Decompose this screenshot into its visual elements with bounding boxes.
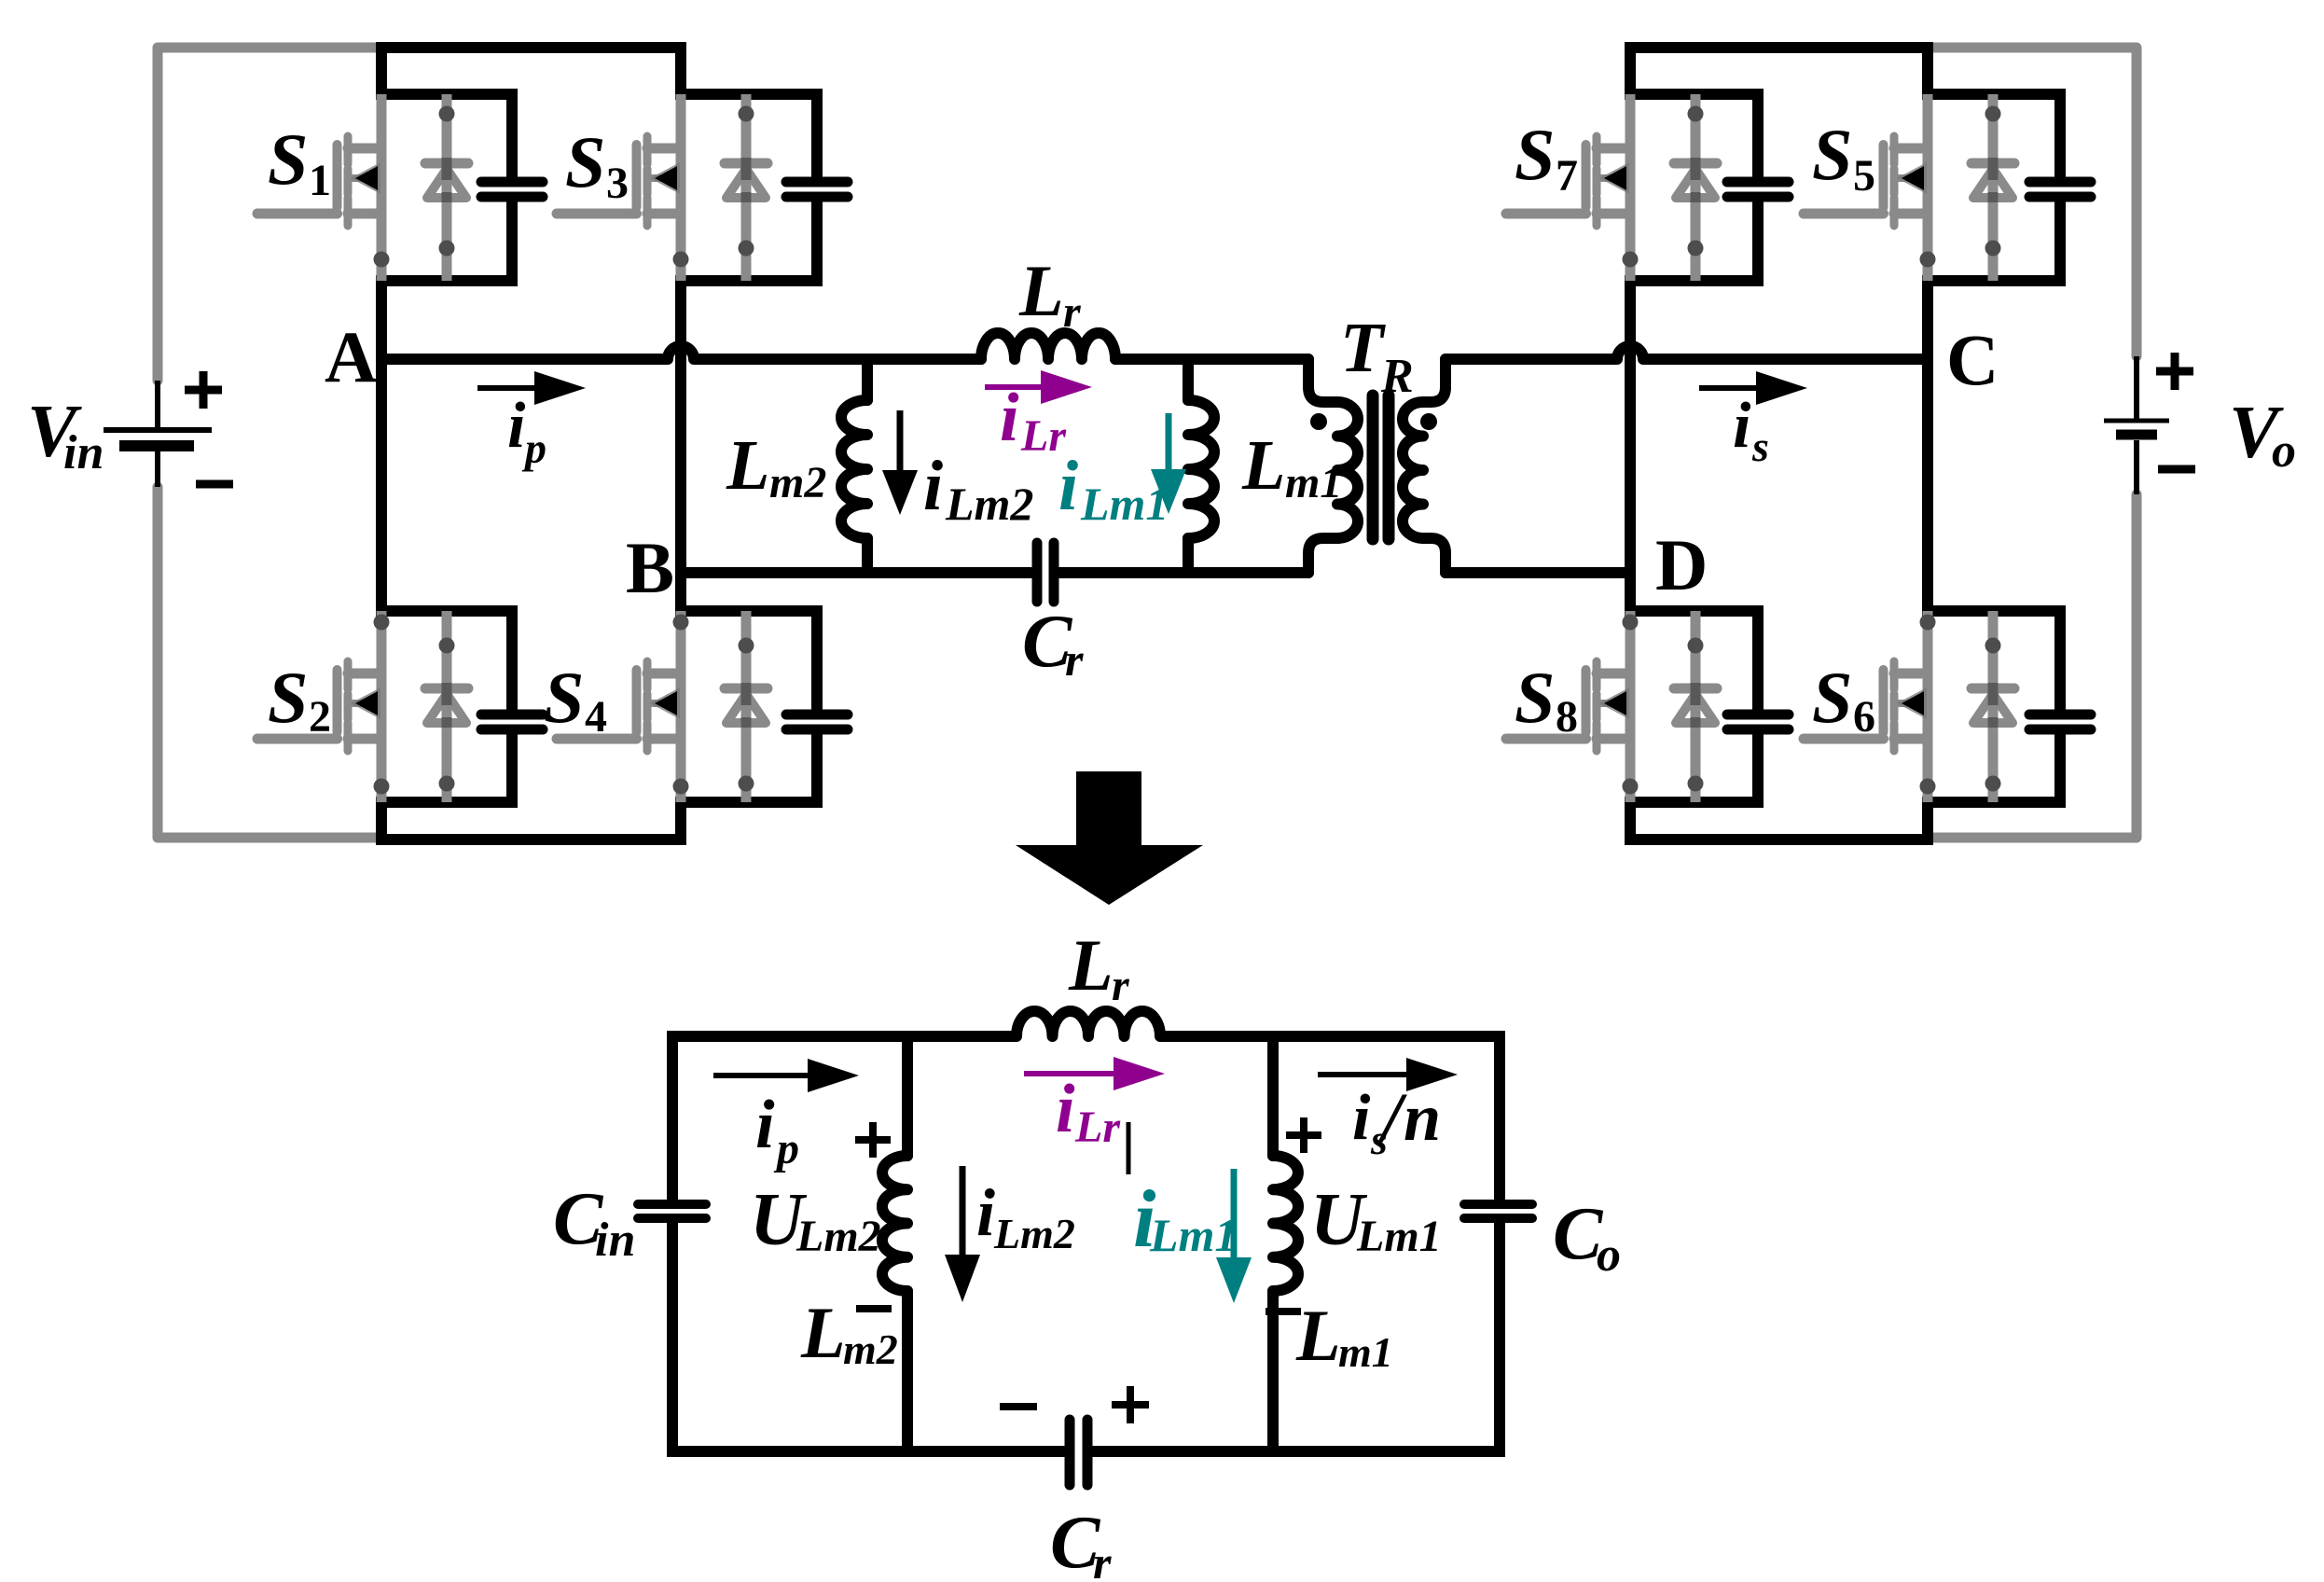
svg-text:Lm2: Lm2 [795, 1212, 881, 1261]
svg-text:m2: m2 [843, 1325, 898, 1373]
svg-text:7: 7 [1556, 151, 1578, 201]
svg-text:o: o [2272, 424, 2296, 478]
svg-text:i: i [1058, 447, 1078, 525]
svg-text:i: i [1352, 1082, 1371, 1154]
svg-text:L: L [1295, 1295, 1341, 1376]
svg-text:Lm2: Lm2 [993, 1210, 1075, 1257]
svg-text:D: D [1655, 524, 1708, 605]
svg-text:i: i [976, 1175, 995, 1250]
svg-text:R: R [1380, 350, 1414, 403]
svg-text:r: r [1065, 633, 1084, 686]
svg-text:i: i [1733, 390, 1751, 462]
svg-text:r: r [1063, 287, 1082, 337]
svg-text:B: B [626, 527, 674, 608]
svg-text:i: i [755, 1087, 775, 1163]
svg-text:L: L [726, 426, 769, 505]
svg-text:Lm1: Lm1 [1149, 1209, 1238, 1261]
svg-text:i: i [1056, 1071, 1075, 1147]
svg-text:L: L [1241, 426, 1285, 505]
svg-text:Lr: Lr [1074, 1103, 1121, 1152]
svg-text:p: p [773, 1124, 799, 1173]
svg-text:S: S [1515, 114, 1555, 195]
svg-text:A: A [325, 316, 377, 397]
svg-text:L: L [800, 1292, 846, 1373]
svg-text:i: i [507, 390, 526, 462]
svg-text:4: 4 [585, 692, 607, 742]
svg-text:Lm1: Lm1 [1080, 478, 1169, 530]
svg-text:in: in [63, 426, 104, 479]
svg-text:p: p [521, 424, 546, 472]
svg-text:s: s [1751, 423, 1769, 470]
svg-text:6: 6 [1853, 692, 1875, 742]
svg-text:S: S [565, 121, 605, 202]
svg-text:r: r [1093, 1536, 1112, 1582]
svg-text:3: 3 [606, 159, 629, 208]
svg-text:in: in [595, 1214, 635, 1267]
svg-text:i: i [1000, 380, 1019, 456]
svg-text:i: i [923, 447, 943, 525]
svg-text:S: S [1515, 657, 1555, 738]
svg-text:C: C [1946, 319, 1999, 400]
svg-text:S: S [544, 657, 584, 738]
svg-text:S: S [268, 118, 308, 200]
svg-text:o: o [1597, 1228, 1621, 1282]
svg-text:1: 1 [309, 156, 331, 205]
svg-text:Lm2: Lm2 [945, 478, 1033, 530]
svg-text:5: 5 [1853, 151, 1875, 201]
svg-text:m1: m1 [1338, 1328, 1393, 1376]
svg-text:Lm1: Lm1 [1356, 1212, 1442, 1261]
svg-text:S: S [1812, 657, 1852, 738]
svg-text:8: 8 [1556, 692, 1578, 742]
svg-text:S: S [1812, 114, 1852, 195]
svg-text:m1: m1 [1285, 458, 1342, 507]
svg-text:n: n [1404, 1080, 1441, 1155]
svg-text:T: T [1340, 309, 1386, 387]
svg-text:S: S [268, 657, 308, 738]
svg-text:L: L [1068, 924, 1114, 1006]
svg-text:L: L [1018, 250, 1064, 331]
svg-text:m2: m2 [769, 458, 826, 507]
svg-text:2: 2 [309, 692, 331, 742]
svg-text:r: r [1112, 961, 1130, 1010]
